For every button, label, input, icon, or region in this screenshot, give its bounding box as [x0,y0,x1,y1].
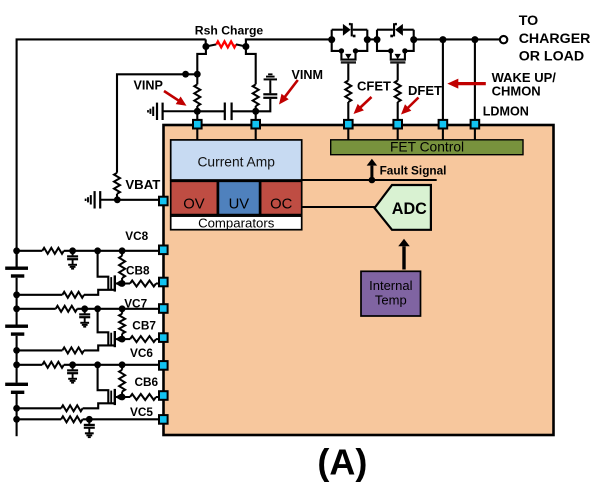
node balance drain branch [94,305,101,312]
wire rail [16,278,18,325]
node DFET left [374,36,381,43]
resistor gate series [395,81,401,103]
capacitor VINM with flipped ground above [263,97,277,99]
capacitor + ground at VBAT (sideways) [100,199,117,201]
block Comparators label strip [171,216,302,230]
resistor gate bleed [61,405,83,411]
capacitor + ground VC5 filter [88,419,90,424]
pin VC8 [159,246,168,255]
wire Rsh right jog up to charger line [246,39,332,46]
wire FET loop [331,30,333,40]
wire VINM sense leg upper [246,47,256,85]
IC body (battery monitor chip) [164,125,554,435]
wire VINM node to pin [255,111,257,119]
svg-text:DFET: DFET [408,83,442,98]
diode body (schottky, mirrored) [395,24,403,36]
wire VINM node to cap branch [256,99,271,112]
svg-text:OR LOAD: OR LOAD [519,48,584,64]
svg-text:VC5: VC5 [130,405,153,419]
pin VC5 [159,415,168,424]
wire WAKE UP drop to pin [442,40,444,120]
svg-text:ADC: ADC [392,200,427,218]
wire rail [16,336,18,383]
resistor VC6 filter [42,362,64,368]
node CB8 junction [119,280,126,287]
arrow CFET pointer [358,97,371,110]
wire comparators to ADC [302,206,375,208]
battery cell top (plates) [5,267,28,270]
diode body (schottky) [343,24,351,36]
node CFET right [364,36,371,43]
pin CB6 [159,391,168,400]
resistor CB6 balance [119,361,126,368]
wire balance FET drain lead [98,365,109,404]
wire balance FET source to lower rail [84,290,115,295]
arrow DFET pointer [406,98,419,111]
wire gate lead down [347,64,349,81]
terminal TO CHARGER OR LOAD (open circle) [500,36,507,43]
svg-text:VC6: VC6 [130,346,153,360]
block FET Control [331,140,523,155]
node rail VC8 [13,247,20,254]
transistor balance FET [110,391,112,404]
svg-text:Comparators: Comparators [198,216,275,231]
resistor VC8 filter [42,248,64,254]
svg-text:UV: UV [229,196,250,212]
capacitor + ground VC8 filter [69,247,76,254]
node CB6 junction [119,394,126,401]
svg-text:CB8: CB8 [126,263,150,277]
node DFET right [410,36,417,43]
node fault junction [369,177,376,184]
wire outer loop: top horizontal and left vertical (pack + terminal) [17,39,206,266]
resistor CB8 series to pin [122,283,130,285]
wire VINP sense leg upper [197,47,206,85]
resistor CB7 series to pin [122,338,130,340]
node rail VC6 [13,361,20,368]
node Rsh right [242,43,249,50]
pin VINM [251,120,260,129]
svg-text:OV: OV [183,196,205,212]
capacitor + ground VC7 filter [81,305,88,312]
resistor CB8 balance [119,247,126,254]
svg-text:Rsh Charge: Rsh Charge [195,24,264,38]
wire balance FET drain lead [98,251,109,290]
node VBAT [114,196,121,203]
resistor Rsh Charge (shunt) [206,44,216,46]
wire VC7 sense row [17,308,56,310]
resistor VINM filter [253,84,259,106]
node rail VC5 [13,416,20,423]
block Internal Temp sensor [361,271,421,316]
wire VINP node to series cap [197,110,224,112]
node VC5 cap [86,416,93,423]
wire pin stubs into Current Amp [196,128,198,140]
capacitor series (sense filter) [224,103,226,121]
pin VBAT [159,197,168,206]
pin VC7 [159,304,168,313]
node rail gate return [13,347,20,354]
svg-text:(A): (A) [317,442,367,483]
svg-text:OC: OC [270,196,293,212]
transistor MOSFET body [332,40,368,60]
node VINM [252,108,259,115]
pin VC6 [159,361,168,370]
battery cell middle (plates) [5,325,28,328]
wire between FETs [367,38,377,40]
node VINP leg junction [194,71,201,78]
pin LDMON [471,120,480,129]
node rail gate return [13,405,20,412]
svg-text:VINP: VINP [134,79,163,93]
capacitor + ground VC6 filter [69,361,76,368]
resistor CB6 series to pin [122,396,130,398]
block U-CurrentAmp Current Amp [171,140,302,180]
node rail VC7 [13,305,20,312]
node CFET left [328,36,335,43]
resistor VBAT [114,173,120,194]
resistor gate series [345,81,351,103]
svg-text:VBAT: VBAT [125,177,160,192]
resistor VC7 filter [56,306,77,312]
wire gate lead down [397,64,399,81]
comparator UV [218,181,259,214]
node CB7 junction [119,336,126,343]
capacitor + ground at VINP (sideways) [163,110,198,112]
comparator OC [261,181,302,214]
svg-text:CFET: CFET [357,79,391,94]
node WAKE UP branch [439,36,446,43]
svg-text:CHMON: CHMON [492,84,541,99]
svg-text:VC8: VC8 [125,229,148,243]
wire to charger terminal [414,38,500,40]
svg-text:Fault Signal: Fault Signal [380,164,447,178]
arrow Internal Temp to ADC [402,246,405,269]
node rail gate return [13,291,20,298]
resistor CB7 balance [119,305,126,312]
node LDMON branch [471,36,478,43]
comparator OV [171,181,218,214]
svg-text:FET Control: FET Control [390,140,464,155]
resistor VC5 filter [61,416,83,422]
node balance drain branch [94,247,101,254]
svg-text:LDMON: LDMON [483,104,529,118]
wire fault signal line from Current Amp [302,179,437,181]
pin DFET [393,120,402,129]
pin VMON/CHMON [439,120,448,129]
wire FET loop [376,30,378,40]
wire pin stubs into FET Control [347,128,349,140]
svg-text:CB6: CB6 [135,375,159,389]
wire balance FET drain lead [98,309,109,346]
svg-text:CHARGER: CHARGER [519,31,591,47]
wire Rsh left jog [205,39,207,46]
wire LDMON drop to pin [474,40,476,120]
svg-text:VC7: VC7 [124,296,147,310]
transistor balance FET [110,277,112,290]
pin CB7 [159,333,168,342]
svg-text:Current Amp: Current Amp [197,155,275,170]
wire balance FET source to lower rail [84,345,115,350]
wire balance FET source to lower rail [83,403,115,408]
svg-text:CB7: CB7 [132,319,156,333]
svg-text:WAKE UP/: WAKE UP/ [492,70,557,85]
wire VC6 sense row [17,364,43,366]
pin CFET [344,120,353,129]
transistor balance FET [110,333,112,346]
wire VBAT feeder: horizontal at y74 and vertical drop at x117 [117,74,197,173]
wire series cap to VINM node [232,110,256,112]
resistor gate bleed [62,292,84,298]
svg-text:TO: TO [519,13,538,29]
resistor gate bleed [62,347,84,353]
wire VINP node to pin [196,111,198,119]
wire VC8 sense row [17,250,43,252]
pin RSH/VINP [193,120,202,129]
pin CB8 [159,278,168,287]
wire VBAT node to pin [117,199,158,201]
block ADC [375,185,431,230]
battery cell bottom (plates) [5,383,28,386]
battery stack rail [16,252,18,267]
transistor MOSFET body [377,40,414,60]
svg-text:VINM: VINM [292,68,323,82]
arrow VINP pointer [164,91,181,102]
arrow fault signal up [370,166,373,178]
svg-text:Internal: Internal [369,278,412,293]
wire VC5 sense row [17,418,62,420]
arrow VINM pointer [283,80,298,99]
node VINP [194,108,201,115]
node Rsh left [202,43,209,50]
node on feeder [182,71,189,78]
node balance drain branch [94,361,101,368]
svg-text:Temp: Temp [375,293,407,308]
resistor VINP filter [194,84,200,106]
wire rail to pack bottom [16,394,18,436]
arrow WAKE UP pointer [454,82,485,85]
